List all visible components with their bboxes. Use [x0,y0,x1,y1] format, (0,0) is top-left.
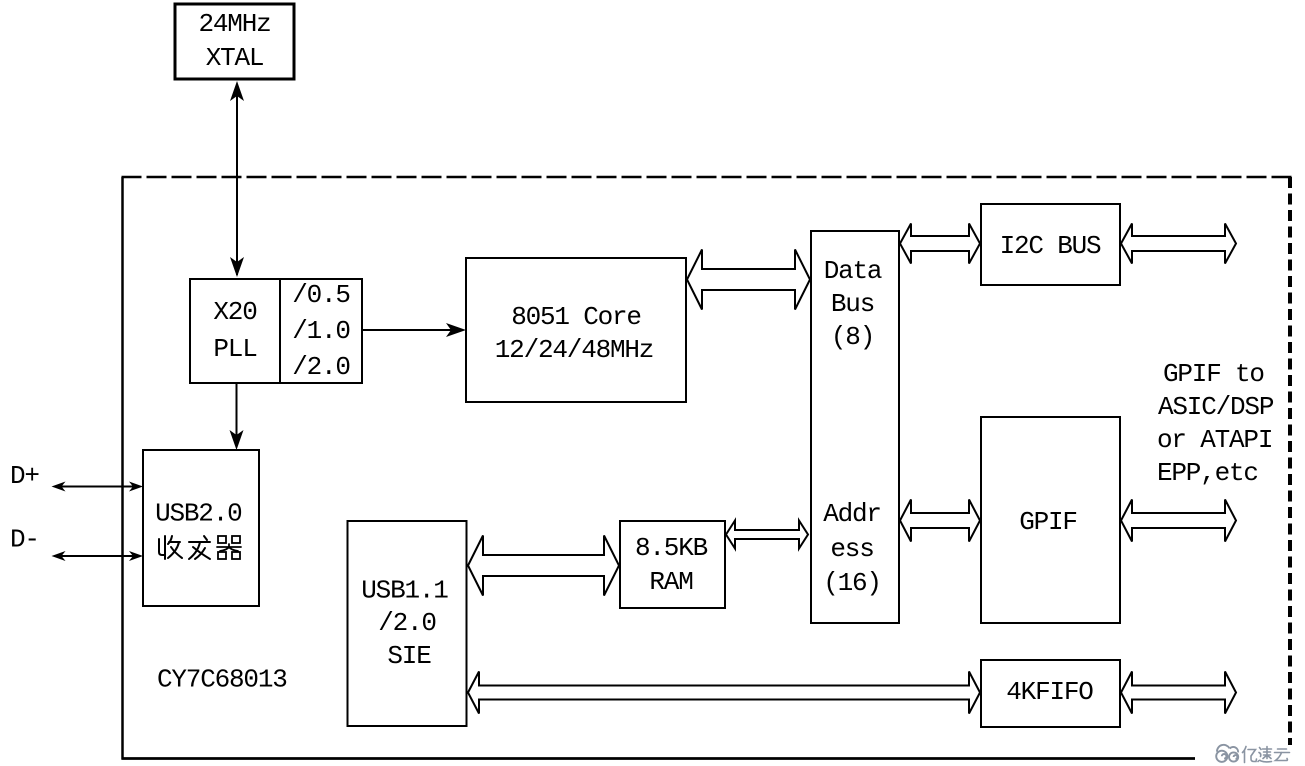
bus arrow RAM to Address bus [726,521,808,549]
SIE block USB1.1/2.0 [348,521,467,726]
bus arrow I2C BUS to external [1121,224,1236,264]
wire PLL down to USB2.0 transceiver [236,383,238,445]
svg-text:GPIF: GPIF [1019,507,1077,537]
svg-text:8051 Core: 8051 Core [511,302,641,332]
watermark logo cloud (yisuyun) [1216,745,1238,762]
USB2.0 transceiver block [143,450,259,606]
PLL block X20 PLL with dividers [190,279,362,383]
bus arrow Address to GPIF [900,500,980,542]
svg-text:PLL: PLL [213,334,256,364]
FIFO block 4KFIFO [981,660,1120,727]
bus arrow SIE to 4KFIFO [468,672,980,714]
bus arrow Data Bus to I2C BUS [900,224,980,264]
svg-text:ASIC/DSP: ASIC/DSP [1158,392,1274,422]
svg-text:CY7C68013: CY7C68013 [157,665,287,695]
chip boundary top border (dashed) [122,176,1293,179]
svg-text:(16): (16) [823,568,881,598]
bus arrow 8051 Core to Data Bus [687,250,810,310]
svg-text:/2.0: /2.0 [378,608,436,638]
data/address bus block [811,231,899,623]
svg-text:12/24/48MHz: 12/24/48MHz [495,335,653,365]
svg-text:(8): (8) [831,322,874,352]
svg-text:USB2.0: USB2.0 [155,499,241,529]
svg-text:D+: D+ [10,461,39,491]
svg-text:GPIF to: GPIF to [1163,359,1264,389]
bus arrow 4KFIFO to external [1121,672,1236,714]
PLL divider line [279,279,281,383]
svg-text:/1.0: /1.0 [292,316,350,346]
chip boundary left border [121,177,124,760]
8051 Core block [466,258,686,402]
watermark text yisuyun [1243,747,1290,763]
label transceiver (Chinese: shou-fa-qi) [159,536,241,559]
chip boundary bottom border [122,757,1196,760]
svg-text:X20: X20 [213,297,256,327]
bus arrow SIE to RAM [468,536,619,596]
svg-text:EPP,etc: EPP,etc [1157,458,1258,488]
svg-text:8.5KB: 8.5KB [635,533,708,563]
GPIF block [981,417,1120,623]
svg-text:4KFIFO: 4KFIFO [1006,677,1093,707]
svg-text:XTAL: XTAL [206,43,264,73]
svg-text:Bus: Bus [831,289,874,319]
crystal 24MHz XTAL [175,4,294,79]
svg-text:I2C BUS: I2C BUS [1000,231,1101,261]
wire XTAL to PLL (bidirectional) [236,84,238,275]
svg-text:USB1.1: USB1.1 [361,576,448,606]
RAM block 8.5KB [620,521,725,608]
bus arrow GPIF to external [1121,500,1236,542]
svg-text:Data: Data [824,256,882,286]
I2C BUS block [981,204,1120,285]
svg-text:RAM: RAM [649,567,692,597]
svg-text:or ATAPI: or ATAPI [1157,425,1272,455]
svg-text:/0.5: /0.5 [292,280,350,310]
svg-text:ess: ess [830,534,873,564]
svg-text:Addr: Addr [823,499,881,529]
svg-text:24MHz: 24MHz [198,9,270,39]
wire D+ to USB2.0 transceiver [55,486,140,488]
chip boundary right border (dashed) [1288,177,1292,745]
svg-text:D-: D- [10,525,39,555]
wire D- to USB2.0 transceiver [55,555,140,557]
svg-text:SIE: SIE [387,641,431,671]
svg-text:/2.0: /2.0 [292,352,350,382]
wire PLL to 8051 Core [362,329,460,331]
